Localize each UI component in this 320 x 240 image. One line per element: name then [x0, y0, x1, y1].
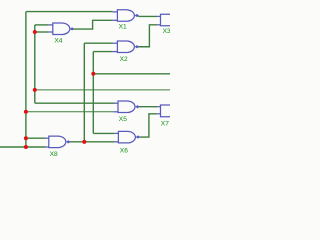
wire net C vertical bus [34, 25, 36, 103]
wire net C long branch right [35, 89, 170, 91]
wire net A top horizontal to X1 input a [26, 11, 113, 13]
AND gate X4 body [49, 23, 74, 35]
svg-text:X5: X5 [119, 116, 127, 123]
wire net C to X5 input a [35, 102, 114, 104]
AND gate X1 body [113, 10, 139, 21]
wire X5 output to X7 input a [139, 106, 157, 108]
AND gate X7 body (clipped at right edge) [157, 105, 177, 117]
junction dot on net E branch right [91, 72, 95, 76]
AND gate X5 body [114, 101, 140, 113]
junction dot on net B at X8 input b [24, 145, 28, 149]
junction dot on net C at long branch [33, 88, 37, 92]
svg-text:X6: X6 [120, 147, 128, 154]
junction dot on net D at X8 output wire [82, 140, 86, 144]
svg-text:X3: X3 [163, 28, 170, 35]
wire X1 output to X3 input a [138, 15, 157, 17]
AND gate X3 body (clipped at right edge) [157, 14, 177, 25]
wire net A branch to X8 input a [26, 137, 45, 139]
svg-text:X2: X2 [120, 56, 128, 63]
svg-text:X8: X8 [50, 151, 58, 158]
wire X2 output riser to X3 input b [138, 25, 157, 47]
wire net B bottom input line to X8 input b [0, 146, 45, 148]
wire net A branch to X5 input b [26, 111, 114, 113]
junction dot on net A at X8 input a branch [24, 136, 28, 140]
svg-text:X1: X1 [119, 23, 127, 30]
wire X8 output to X6 input b [70, 141, 115, 143]
svg-text:X4: X4 [54, 37, 62, 44]
wire X4 output staircase to X1 input b [73, 20, 112, 29]
wire net A left vertical bus [25, 12, 27, 147]
junction dot on net A at X5 input b branch [24, 110, 28, 114]
AND gate X6 body [115, 131, 140, 143]
wire net E vertical from X2 input b down to X6 input a [92, 52, 94, 134]
AND gate X8 body [45, 136, 70, 148]
junction dot on net C at X4 input b [33, 30, 37, 34]
wire net D horizontal into X2 input a [84, 42, 112, 44]
AND gate X2 body [113, 41, 139, 53]
wire net E branch right [93, 73, 170, 75]
wire net E horizontal into X2 input b [93, 51, 112, 53]
wire net C branch to X4 input b [35, 31, 49, 33]
wire net C to X4 input a [35, 24, 49, 26]
wire net D vertical from X2 input a down to X8 output node [83, 43, 85, 142]
wire X6 output riser to X7 input b [139, 114, 157, 137]
svg-text:X7: X7 [161, 120, 169, 127]
wire net E horizontal into X6 input a [93, 132, 114, 134]
